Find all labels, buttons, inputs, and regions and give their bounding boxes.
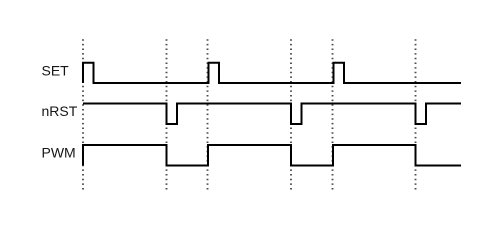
svg-text:PWM: PWM [42, 145, 76, 161]
wire PWM waveform [83, 145, 461, 166]
svg-text:SET: SET [42, 62, 70, 78]
wire SET waveform [83, 63, 461, 83]
svg-text:nRST: nRST [42, 103, 78, 119]
node t1 (dotted timeline x=83) [82, 39, 84, 189]
node t3 (dotted timeline x=207.5) [207, 39, 209, 189]
node t4 (dotted timeline x=291) [290, 39, 292, 189]
wire nRST waveform [83, 104, 461, 125]
node t2 (dotted timeline x=166.5) [166, 39, 168, 189]
node t6 (dotted timeline x=415.5) [415, 39, 417, 189]
node t5 (dotted timeline x=332.5) [332, 39, 334, 189]
